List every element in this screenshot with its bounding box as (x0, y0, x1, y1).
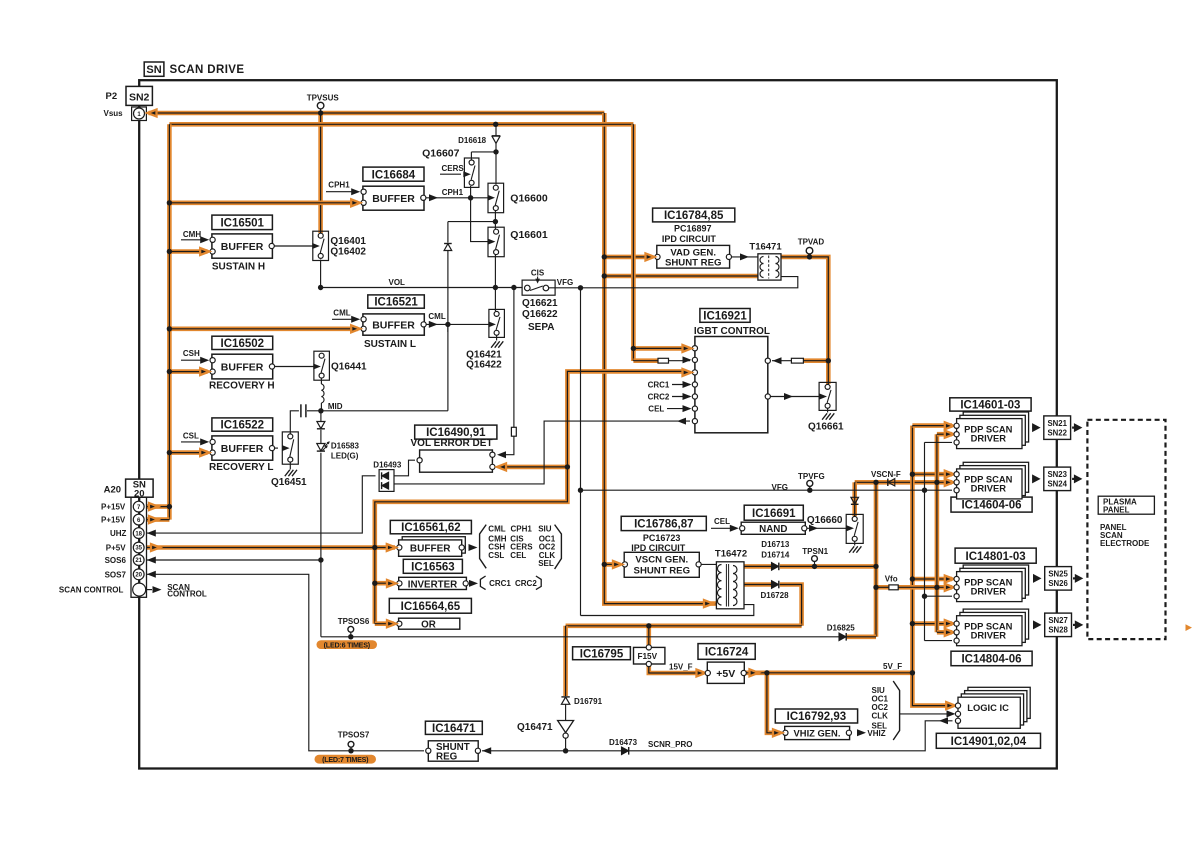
svg-text:BUFFER: BUFFER (372, 319, 415, 331)
wire Q16471 to SCNR (565, 738, 567, 751)
svg-text:DRIVER: DRIVER (971, 585, 1007, 596)
svg-text:Q16660: Q16660 (807, 515, 843, 526)
label IGBT CONTROL (694, 326, 770, 337)
block IC16691 label (744, 505, 803, 520)
wire CSH input (181, 359, 205, 361)
diode D16825 (839, 633, 846, 641)
wire resistor to IGBT right pin (772, 360, 791, 362)
svg-text:SEPA: SEPA (528, 322, 555, 333)
transistor Q16451 (282, 432, 298, 464)
wire VSCN output to T16472 (699, 563, 717, 565)
block IC16502 buffer (212, 354, 273, 379)
label Q16441 (331, 362, 367, 373)
svg-text:CPH1: CPH1 (328, 181, 350, 190)
svg-text:Q16441: Q16441 (331, 362, 367, 373)
svg-text:CML: CML (333, 308, 350, 317)
arrow SOS6 into pin21 (147, 557, 156, 564)
block PDP SCAN DRIVER 4 (957, 609, 1029, 646)
wire bus vertical V3 (935, 434, 940, 632)
label D16618 (458, 136, 487, 145)
highlight LED 6 TIMES (317, 640, 378, 649)
label P+5V (106, 544, 126, 553)
svg-text:REG: REG (436, 752, 458, 763)
svg-text:BUFFER: BUFFER (410, 544, 451, 555)
arrow P+5V into IC16563 (387, 580, 396, 587)
wire Vfo line after resistor (898, 585, 952, 590)
arrow NAND out (809, 525, 818, 532)
pins PDP3 (945, 576, 959, 599)
svg-text:CPH1: CPH1 (511, 525, 533, 534)
transistor Q16601 (488, 227, 504, 257)
svg-text:SN2: SN2 (129, 91, 150, 103)
svg-text:VFG: VFG (772, 483, 788, 492)
label UHZ (110, 529, 127, 538)
resistor Vfo (889, 585, 898, 590)
svg-text:TPVFG: TPVFG (798, 472, 825, 481)
wire CML to MID riser (447, 324, 449, 332)
test point TPVFG (798, 472, 825, 491)
wire D16618 to Q16600 (495, 143, 497, 184)
pins +5V (705, 670, 746, 675)
wire Q16600-Q16601 link (494, 210, 496, 230)
ground Q16421 (491, 341, 503, 347)
svg-text:CRC1: CRC1 (648, 380, 670, 389)
wire VSCN-F drop to Q16660 (852, 482, 857, 516)
wire SIU bus to LOGIC (900, 713, 953, 715)
svg-text:D16493: D16493 (373, 461, 402, 470)
svg-text:Q16422: Q16422 (466, 359, 502, 370)
svg-text:P+15V: P+15V (101, 503, 126, 512)
svg-text:IC14604-06: IC14604-06 (961, 500, 1021, 512)
wire P+15V branch to IC16501 (169, 249, 207, 254)
arrow P+15V pin7 (149, 503, 158, 510)
label D16493 (373, 461, 402, 470)
wire SOS6/TPSOS6 line (321, 636, 840, 638)
label P+15V pin7 (101, 503, 126, 512)
svg-text:DRIVER: DRIVER (971, 483, 1007, 494)
wire VFG return (581, 605, 754, 616)
svg-text:SN21: SN21 (1047, 419, 1067, 428)
transformer T16472 (716, 562, 744, 609)
svg-text:D16713: D16713 (761, 540, 790, 549)
block IC16564,65 label (389, 598, 471, 613)
wire P+15V rail vertical (167, 124, 172, 519)
svg-text:CRC2: CRC2 (515, 579, 537, 588)
label D16728 (761, 591, 790, 600)
svg-text:TPVAD: TPVAD (798, 238, 825, 247)
arrow base Q16421 (488, 321, 496, 327)
pins PDP2 (945, 471, 959, 493)
ground Q16660 (849, 546, 861, 552)
transistor Q16661 (819, 382, 836, 410)
pins VSCN GEN (622, 562, 701, 567)
svg-text:Vfo: Vfo (885, 574, 898, 583)
block IC16786,87 label (621, 516, 706, 530)
diode D16493 (379, 470, 394, 492)
svg-text:CONTROL: CONTROL (167, 590, 207, 599)
svg-text:BUFFER: BUFFER (221, 361, 264, 373)
arrow at image right edge (1186, 624, 1192, 631)
wire D16728 line to 15V rail (780, 585, 802, 626)
wire snubber branch (448, 221, 496, 223)
block IGBT body (695, 337, 768, 433)
wire Vsus drop to Q16401 (318, 113, 323, 233)
wire Vfo riser (874, 482, 879, 637)
pins IC16471 (426, 748, 481, 753)
pins PDP1 (945, 422, 959, 445)
label VFG at SEPA (557, 278, 573, 287)
block IC16521 label (368, 295, 425, 309)
label CSL (183, 431, 199, 440)
label SCAN CONTROL left (59, 586, 124, 595)
block IC16921 label (700, 309, 750, 323)
svg-text:CERS: CERS (442, 164, 465, 173)
svg-text:P2: P2 (106, 91, 118, 102)
wire P+15V drop to IGBT pin1 (631, 124, 636, 361)
wire CMH input (181, 239, 205, 241)
arrow base Q16600 (488, 195, 496, 201)
svg-text:SOS6: SOS6 (105, 556, 127, 565)
svg-text:CLK: CLK (872, 712, 889, 721)
arrow CEL into IGBT (683, 405, 692, 412)
wire Q16607 collector (470, 152, 472, 160)
arrow VOL sense into IC16490 (497, 451, 506, 458)
arrow CML out (429, 321, 438, 328)
connector pin 1 Vsus (132, 107, 147, 121)
svg-text:VFG: VFG (557, 278, 573, 287)
label D16825 (827, 623, 856, 632)
svg-text:CSL: CSL (488, 551, 504, 560)
wire Q16660 ground link (854, 541, 856, 546)
svg-text:BUFFER: BUFFER (221, 241, 264, 253)
transistor Q16441 (314, 351, 330, 380)
brace open signal list (480, 525, 487, 569)
wire drop to D16791 (563, 626, 568, 696)
arrow P+5V into IC16561 (387, 544, 396, 551)
label Q16402 (330, 247, 366, 258)
wire CSL input (181, 441, 205, 443)
svg-text:D16618: D16618 (458, 136, 487, 145)
wire snubber to MID (447, 250, 449, 411)
block IC16795 label (573, 647, 631, 661)
arrow 5V_F out (750, 669, 759, 676)
label Q16622 (522, 309, 558, 320)
diode above Q16660 (851, 497, 859, 504)
label CSH (183, 349, 200, 358)
svg-text:Q16621: Q16621 (522, 298, 558, 309)
arrow P+5V into IGBT pin3 (683, 369, 692, 376)
svg-text:21: 21 (135, 558, 142, 564)
svg-text:15V_F: 15V_F (669, 662, 693, 671)
svg-text:IC16724: IC16724 (705, 647, 749, 659)
arrow base Q16451 (282, 445, 290, 451)
label Q16661 (808, 422, 844, 433)
block PDP SCAN DRIVER 3 (957, 565, 1029, 602)
block IC16471 label (425, 721, 482, 735)
wire 5V_F bus vertical V1 (912, 426, 952, 706)
svg-text:TPSOS7: TPSOS7 (338, 730, 370, 739)
test point TPSN1 (802, 547, 828, 566)
label Q16600 (510, 193, 548, 205)
svg-text:IC14901,02,04: IC14901,02,04 (951, 736, 1027, 748)
block PDP SCAN DRIVER 1 (957, 412, 1029, 449)
svg-text:CRC1: CRC1 (489, 579, 511, 588)
arrow CPH1 into IC16684 (351, 188, 360, 195)
svg-text:T16471: T16471 (749, 241, 782, 252)
wire P+15V pin7 stub (146, 504, 169, 509)
brace CRC open (480, 576, 485, 590)
wire F15V to +5V (649, 664, 703, 673)
label VFG dist (772, 483, 788, 492)
svg-text:BUFFER: BUFFER (221, 443, 264, 455)
wire V1 top to PDP1 pin1 (912, 423, 952, 428)
diode on VSCN-F line (888, 479, 895, 486)
wire TPVAD line (781, 257, 828, 384)
wire VOL sense riser (513, 288, 515, 428)
wire VFG distribution (581, 489, 953, 491)
wire D16493 to IGBT out (394, 421, 690, 484)
block VHIZ GEN (785, 726, 850, 739)
wire gray bus to PDP3 pin3 (925, 595, 953, 597)
pins IC16501 (210, 237, 274, 254)
wire MID diode chain (320, 411, 322, 422)
label LED(G) (331, 451, 359, 460)
block IC16521 buffer (363, 314, 424, 335)
svg-text:SOS7: SOS7 (105, 570, 127, 579)
pins IC16521 (361, 317, 426, 332)
wire D16791 to Q16471 (565, 704, 567, 720)
block PDP SCAN DRIVER 2 label (951, 497, 1032, 512)
label D16714 (761, 550, 790, 559)
wire IC16501 output to Q16401 (272, 245, 313, 247)
svg-text:Q16471: Q16471 (517, 722, 553, 733)
svg-text:SN26: SN26 (1048, 579, 1068, 588)
svg-text:IPD CIRCUIT: IPD CIRCUIT (662, 234, 717, 244)
pin IC16564 (397, 621, 402, 626)
wire D16493 to IC16490 (394, 460, 415, 476)
arrow CRC2 into IGBT (683, 393, 692, 400)
svg-text:IC16561,62: IC16561,62 (401, 522, 460, 534)
svg-text:CEL: CEL (714, 517, 730, 526)
svg-text:CML: CML (488, 525, 505, 534)
svg-text:IC16795: IC16795 (580, 648, 624, 660)
svg-text:OR: OR (421, 620, 436, 631)
label CMH (183, 230, 201, 239)
label P+15V pin6 (101, 516, 126, 525)
test point TPSOS7 (338, 730, 370, 751)
wire V3 bottom to PDP4 pin2 (937, 630, 952, 635)
wire P+15V branch IGBT pin1 (633, 346, 684, 351)
wire 5V_F line (744, 670, 912, 675)
diode D16714 (772, 563, 779, 571)
pins IC16561 (397, 545, 465, 550)
svg-text:SN: SN (146, 64, 161, 76)
label Q16451 (271, 477, 307, 488)
svg-text:IC16563: IC16563 (411, 561, 454, 573)
schematic border frame (139, 80, 1057, 768)
svg-text:Q16451: Q16451 (271, 477, 307, 488)
svg-text:IC16522: IC16522 (221, 420, 264, 432)
transformer T16471 (758, 254, 781, 280)
svg-text:Q16600: Q16600 (510, 193, 548, 205)
svg-text:IC16502: IC16502 (221, 338, 264, 350)
label SUSTAIN H (212, 262, 265, 273)
svg-text:IC16564,65: IC16564,65 (401, 601, 461, 613)
svg-text:IGBT CONTROL: IGBT CONTROL (694, 326, 770, 337)
wire CRC2 input (672, 396, 690, 398)
svg-text:VHIZ GEN.: VHIZ GEN. (794, 728, 841, 739)
svg-text:20: 20 (135, 573, 142, 579)
switch Q16621 Q16622 SEPA (522, 280, 555, 295)
label SCAN CONTROL right (167, 583, 207, 599)
block IC16561 buffer (399, 537, 466, 557)
svg-text:SIU: SIU (538, 525, 552, 534)
svg-text:D16728: D16728 (761, 591, 790, 600)
brace CRC close (536, 576, 541, 590)
arrow CML into IC16521 (351, 316, 360, 323)
svg-text:IC16471: IC16471 (432, 723, 476, 735)
wire VAD output to T16471 (729, 256, 759, 258)
arrow CSL into IC16522 (200, 438, 209, 445)
arrow P+5V into IC16564 (387, 620, 396, 627)
wire LED to SOS6 (320, 453, 322, 637)
arrow P+5V out pin35 (151, 544, 160, 551)
label T16472 (715, 549, 747, 560)
wire Q16607 emitter to CPH1 net (471, 186, 489, 242)
block NAND (741, 522, 805, 535)
test point TPVAD (798, 238, 825, 259)
label 5V_F (883, 662, 902, 671)
wire branch to Q16607 (471, 151, 496, 153)
wire CPH1 net (424, 197, 488, 199)
svg-text:UHZ: UHZ (110, 529, 127, 538)
wire 15V distribution line (566, 623, 802, 628)
label CEL NAND (714, 517, 730, 526)
block IC16501 label (212, 215, 273, 230)
label T16471 (749, 241, 782, 252)
label CRC1 CRC2 (489, 579, 537, 588)
pins VHIZ GEN (783, 730, 852, 735)
block PLASMA PANEL (1098, 496, 1154, 514)
svg-text:TPSOS6: TPSOS6 (338, 617, 370, 626)
svg-text:D16714: D16714 (761, 550, 790, 559)
arrow P+15V into IC16502 (200, 368, 209, 375)
label CPH1 in (328, 181, 350, 190)
capacitor at MID node (301, 404, 306, 417)
svg-text:VOL ERROR DET: VOL ERROR DET (411, 438, 493, 449)
label D16791 (574, 697, 603, 706)
svg-text:CEL: CEL (648, 404, 664, 413)
svg-text:IC14801-03: IC14801-03 (966, 551, 1026, 563)
svg-text:SN24: SN24 (1047, 480, 1067, 489)
block IC16564 OR (399, 618, 460, 630)
ground Q16451 (285, 470, 297, 476)
connector SN20 pins (133, 501, 146, 596)
svg-text:Q16622: Q16622 (522, 309, 558, 320)
wire IC16522 output to Q16451 (272, 447, 278, 449)
block IC16561,62 label (390, 520, 471, 534)
svg-text:SCNR_PRO: SCNR_PRO (648, 740, 692, 749)
diode D16728 (772, 581, 779, 589)
block IC16502 label (212, 336, 273, 350)
pins IC16502 (210, 358, 275, 375)
connector SN20 (126, 479, 154, 499)
block IC16684 buffer (363, 186, 424, 210)
wire P+5V branch to VOL ERROR DET (501, 465, 567, 470)
svg-text:CIS: CIS (531, 268, 545, 277)
wire VHIZ feed (767, 673, 780, 733)
scan control stub (146, 586, 162, 593)
svg-text:CRC2: CRC2 (648, 392, 670, 401)
connector SN20 body (131, 497, 147, 597)
svg-text:TPVSUS: TPVSUS (307, 94, 340, 103)
svg-text:(LED:7 TIMES): (LED:7 TIMES) (322, 755, 369, 764)
brace close signal list (555, 525, 562, 569)
svg-text:+5V: +5V (716, 668, 735, 680)
wire CPH1 input (326, 191, 358, 193)
transistor Q16660 (846, 514, 863, 543)
svg-text:DRIVER: DRIVER (971, 630, 1007, 641)
wire resistor stub from TPVAD rail (804, 358, 829, 363)
svg-text:CSH: CSH (183, 349, 200, 358)
transistor Q16421 Q16422 (489, 309, 505, 337)
svg-text:SHUNT REG: SHUNT REG (634, 566, 691, 577)
svg-text:Vsus: Vsus (104, 109, 124, 118)
wire gray bus pin3 (924, 442, 926, 640)
wire P+15V branch to IC16502 (169, 369, 207, 374)
arrow IC16561 out (469, 544, 478, 551)
test point TPVSUS (307, 94, 340, 114)
svg-text:F15V: F15V (638, 652, 658, 661)
connector SN21 SN22 (1032, 416, 1082, 440)
arrow into VHIZ GEN (773, 729, 782, 736)
svg-text:SUSTAIN L: SUSTAIN L (364, 339, 416, 350)
connector SN2 (126, 86, 152, 105)
label SCNR_PRO (648, 740, 692, 749)
arrow LOGIC pin3 (939, 717, 948, 724)
block IC16792,93 label (775, 709, 857, 723)
block VAD GEN SHUNT REG (657, 245, 730, 268)
svg-text:35: 35 (135, 546, 142, 552)
block IC16522 label (212, 418, 273, 432)
wire Vsus branch to VSCN GEN (604, 562, 619, 567)
wire P+15V pin6 stub (146, 517, 169, 522)
arrow CRC1 into IGBT (683, 381, 692, 388)
label PANEL SCAN ELECTRODE (1100, 523, 1150, 548)
wire Q16401 emitter to VOL (320, 260, 322, 288)
arrow into IC16471 (482, 747, 491, 754)
wire SCNR_PRO line (482, 721, 953, 751)
wire CEL to NAND (711, 527, 737, 529)
svg-text:T16472: T16472 (715, 549, 747, 560)
arrow base Q16601 (488, 239, 496, 245)
label Q16421 (466, 350, 502, 361)
label D16473 (609, 738, 638, 747)
svg-text:IC16784,85: IC16784,85 (664, 210, 724, 222)
arrow P+15V into IGBT pin1 (683, 345, 692, 352)
block IC16684 label (363, 167, 424, 181)
arrow IGBT drive out (784, 393, 793, 400)
block LOGIC IC stack (958, 687, 1030, 728)
label CML in (333, 308, 350, 317)
label Q16660 (807, 515, 843, 526)
svg-text:SUSTAIN H: SUSTAIN H (212, 262, 265, 273)
svg-text:IC16501: IC16501 (220, 218, 264, 230)
wire P+15V stub to resistor (633, 358, 658, 363)
title SCAN DRIVE (170, 64, 245, 76)
wire IGBT pin2 resistor link (669, 360, 691, 362)
block +5V regulator (707, 662, 744, 683)
